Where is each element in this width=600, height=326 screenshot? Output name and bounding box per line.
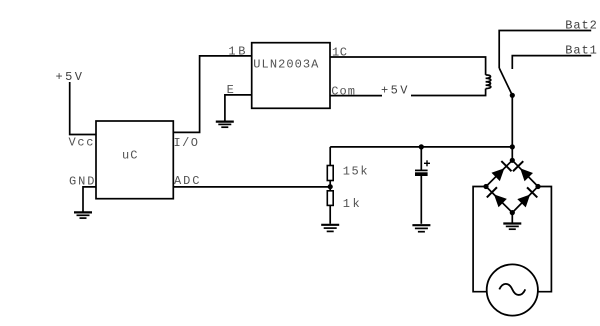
svg-text:+5V: +5V	[56, 70, 83, 84]
wire coil bottom to +5V	[411, 89, 486, 96]
wire switch common to bridge	[511, 95, 513, 160]
svg-text:ADC: ADC	[174, 174, 199, 188]
wire Bat1 contact	[512, 56, 591, 69]
wire +5V to Vcc pin	[70, 82, 96, 135]
wire I/O to 1B	[173, 56, 251, 132]
svg-text:ULN2003A: ULN2003A	[253, 57, 319, 71]
node bridge top vertex	[510, 158, 515, 163]
bridge rectifier edges	[486, 160, 538, 212]
ground (C1)	[412, 225, 430, 232]
wire bridge bottom to ground	[511, 213, 513, 223]
ground (E pin)	[216, 122, 234, 128]
wire 1C to relay coil	[330, 57, 486, 75]
junction capacitor node	[419, 144, 424, 149]
node bridge right vertex	[535, 184, 540, 189]
ground (R2)	[321, 225, 339, 232]
capacitor C1	[415, 147, 430, 224]
svg-text:Vcc: Vcc	[69, 136, 94, 150]
svg-text:+5V: +5V	[381, 84, 408, 98]
wire Com pin	[330, 95, 382, 97]
wire divider top rail	[330, 146, 512, 148]
relay switch lever	[499, 68, 512, 95]
diode D3 (bottom to left)	[487, 187, 507, 207]
wire GND pin to ground	[83, 187, 96, 212]
wire bridge left to AC source	[473, 187, 487, 292]
IC U2 ULN2003A	[252, 43, 330, 109]
wire ADC to divider	[173, 186, 330, 188]
node bridge bottom vertex	[510, 210, 515, 215]
resistor R2 1k	[327, 191, 359, 224]
AC source V1	[487, 264, 538, 315]
ground (uC GND)	[74, 212, 92, 218]
wire Bat2	[499, 31, 591, 69]
diode D4 (bottom to right)	[517, 187, 537, 207]
node bridge left vertex	[483, 184, 488, 189]
ground (bridge)	[503, 224, 521, 230]
svg-text:15k: 15k	[343, 164, 368, 178]
relay coil K1	[486, 75, 491, 89]
microcontroller U1 uC	[96, 121, 173, 199]
svg-text:uC: uC	[122, 149, 138, 163]
junction bridge top node	[510, 144, 515, 149]
diode D2 (right to top)	[513, 161, 533, 181]
wire E pin to ground	[225, 95, 252, 121]
diode D1 (left to top)	[491, 161, 511, 181]
resistor R1 15k	[327, 147, 367, 191]
wire bridge right to AC source	[538, 187, 552, 292]
junction switch common	[510, 93, 515, 98]
svg-text:I/O: I/O	[174, 136, 199, 150]
junction divider node	[328, 184, 333, 189]
